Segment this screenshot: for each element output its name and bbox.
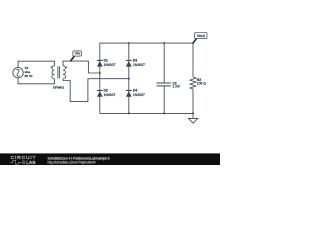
svg-text:Vin: Vin: [74, 52, 79, 56]
svg-text:Vout: Vout: [197, 33, 206, 38]
wire: primary loop bottom: [18, 78, 54, 84]
svg-text:1N4007: 1N4007: [133, 63, 145, 67]
svg-text:1N4007: 1N4007: [104, 63, 116, 67]
voltage source V1: [13, 68, 23, 78]
diode D1: [97, 60, 103, 66]
wire: top rail (+): [100, 42, 193, 44]
wire: right bridge column: [128, 43, 130, 113]
capacitor C2: [157, 83, 171, 86]
CircuitLab logo: [10, 155, 36, 165]
svg-text:D2: D2: [104, 89, 108, 93]
node dot: top rail / C2: [163, 42, 165, 44]
net flag Vin: [70, 51, 81, 61]
wire: secondary top to node Vin to bridge mid-left: [63, 61, 100, 73]
wire: bottom rail (-): [100, 112, 193, 114]
wire: secondary bottom U-path to bridge mid-right: [63, 79, 129, 102]
wire: left bridge column: [99, 43, 101, 113]
net flag Vout: [193, 32, 207, 43]
svg-text:1 mF: 1 mF: [173, 85, 181, 89]
node dot: bridge mid-right: [128, 78, 130, 80]
footer band: [0, 153, 220, 165]
svg-text:Schaltskizzen 4 | PulsierenzuL: Schaltskizzen 4 | PulsierenzuLabmanip2-3: [48, 156, 110, 160]
node dot: bottom rail / C2: [163, 112, 165, 114]
resistor R2: [190, 77, 196, 89]
wire: R2 branch leads: [192, 43, 194, 113]
diode D3: [126, 60, 132, 66]
diode D4: [126, 91, 132, 97]
ground: [189, 113, 198, 123]
svg-text:LAB: LAB: [26, 160, 35, 165]
svg-text:1N4007: 1N4007: [104, 93, 116, 97]
svg-text:60 Hz: 60 Hz: [25, 74, 33, 78]
svg-text:D1: D1: [104, 58, 108, 62]
svg-text:D3: D3: [133, 58, 137, 62]
transformer U1 XFMR1: [52, 66, 66, 79]
svg-text:һttp://circuitlab.com/c/74lptc: һttp://circuitlab.com/c/74lptcv8b04: [48, 161, 96, 165]
wire: primary loop top: [18, 61, 54, 67]
node dot: top rail / R2 / Vout: [192, 42, 194, 44]
label V1: [25, 66, 33, 78]
svg-text:100 Ω: 100 Ω: [197, 81, 207, 85]
svg-text:D4: D4: [133, 89, 137, 93]
node dot: top rail / right column: [128, 42, 130, 44]
node dot: bridge mid-left (Vin side): [99, 72, 101, 74]
phase dot secondary: [66, 66, 67, 67]
svg-text:XFMR1: XFMR1: [53, 86, 65, 90]
node dot: bottom rail / right column: [128, 112, 130, 114]
svg-text:1N4007: 1N4007: [133, 93, 145, 97]
node dot: bottom rail / ground: [192, 112, 194, 114]
diode D2: [97, 91, 103, 97]
wire: C2 branch leads: [163, 43, 165, 113]
phase dot primary: [51, 66, 52, 67]
